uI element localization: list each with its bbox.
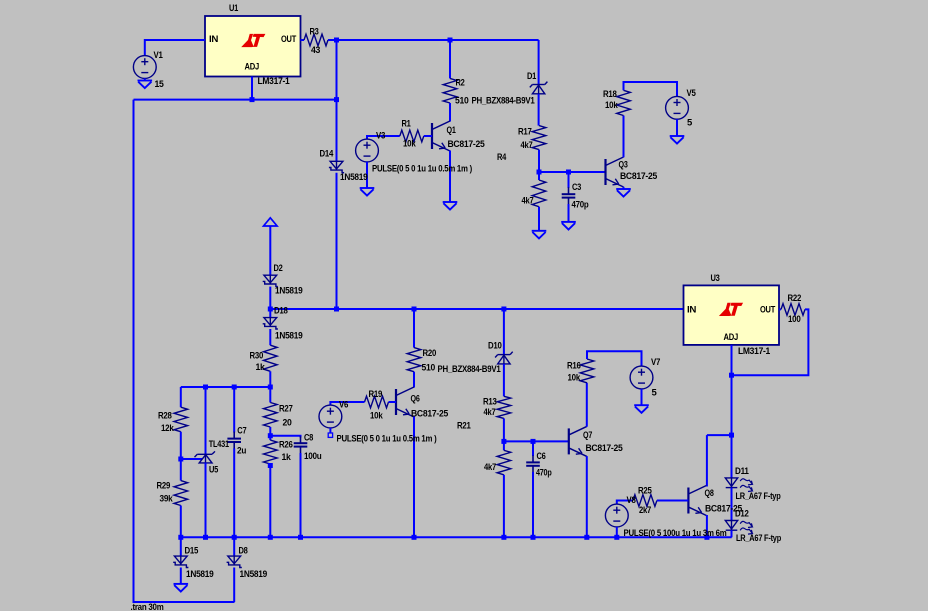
transistor Q7 BC817-25 <box>569 426 587 456</box>
svg-text:R21: R21 <box>457 421 471 432</box>
wire node to R4 <box>538 172 540 180</box>
node junction mid bus left end <box>268 307 273 312</box>
node bus/R21 <box>501 535 506 540</box>
wire Q6 emitter to bus <box>413 417 415 538</box>
wire arrow to D2 <box>269 226 271 275</box>
transistor Q3 BC817-25 <box>606 157 624 187</box>
svg-text:20: 20 <box>283 418 292 429</box>
wire D1 to R17 <box>538 94 540 126</box>
wire R29 to bottom bus <box>180 506 182 538</box>
wire D14 to mid bus <box>336 173 338 309</box>
wire node to Q3 base <box>539 171 606 173</box>
svg-text:R4: R4 <box>497 152 507 163</box>
svg-text:PH_BZX884-B9V1: PH_BZX884-B9V1 <box>438 364 502 375</box>
wire bus to D10 <box>503 309 505 354</box>
wire to R2 <box>449 40 451 78</box>
svg-text:10k: 10k <box>403 139 416 150</box>
svg-text:D12: D12 <box>735 509 749 520</box>
wire Q8 collector link <box>707 434 732 436</box>
svg-text:R17: R17 <box>518 127 532 138</box>
svg-text:C7: C7 <box>237 426 246 437</box>
wire U1 OUT to R3 <box>301 39 305 41</box>
wire R18 top to V5 <box>624 82 678 96</box>
svg-text:R29: R29 <box>157 481 171 492</box>
resistor R4 <box>532 180 546 207</box>
resistor R2 <box>443 78 457 103</box>
svg-text:R1: R1 <box>402 119 412 130</box>
wire D10 to R13 <box>503 364 505 396</box>
wire V3 to R1 <box>367 136 400 139</box>
wire R4 to ground <box>538 207 540 231</box>
node junction C3 top <box>566 170 571 175</box>
wire bus to D15 <box>180 537 182 556</box>
wire to C7 <box>233 387 235 433</box>
resistor R28 <box>174 407 188 432</box>
wire left rail to bottom <box>134 100 235 602</box>
diode D18 1N5819 <box>263 318 278 329</box>
wire D18 to R30 <box>269 329 271 345</box>
svg-text:D10: D10 <box>488 341 502 352</box>
ground C3 <box>561 222 576 230</box>
resistor R3 <box>304 34 328 46</box>
svg-text:LR_A67 F-typ: LR_A67 F-typ <box>736 533 781 544</box>
svg-text:OUT: OUT <box>760 305 775 316</box>
resistor R30 <box>264 345 278 371</box>
wire Q8 emitter to bus <box>706 515 708 537</box>
svg-text:R18: R18 <box>603 89 617 100</box>
svg-text:Q1: Q1 <box>447 125 457 136</box>
diode D8 1N5819 <box>227 556 242 567</box>
ground D15 <box>174 584 189 592</box>
capacitor C6 470p <box>526 455 540 472</box>
svg-text:ADJ: ADJ <box>724 332 739 343</box>
svg-text:PH_BZX884-B9V1: PH_BZX884-B9V1 <box>472 96 536 107</box>
svg-text:4k7: 4k7 <box>521 140 533 151</box>
wire R28 to R29 <box>180 432 182 481</box>
ground Q1 <box>443 202 458 210</box>
wire C7 to bus <box>233 449 235 538</box>
svg-text:V8: V8 <box>627 495 636 506</box>
LED D12 LR_A67 <box>725 521 752 535</box>
node bus/C7 <box>232 535 237 540</box>
svg-text:470p: 470p <box>572 200 589 211</box>
ground V7 <box>634 405 649 413</box>
voltage source V8 <box>605 504 628 527</box>
LT logo U3 <box>719 303 743 316</box>
wire R2 to Q1 collector <box>449 103 451 122</box>
svg-text:1N5819: 1N5819 <box>186 569 214 580</box>
svg-text:U5: U5 <box>209 465 219 476</box>
svg-text:V1: V1 <box>154 50 164 61</box>
wire V6 bottom stub <box>329 428 331 433</box>
svg-text:4k7: 4k7 <box>484 407 496 418</box>
svg-text:V6: V6 <box>339 400 348 411</box>
node junction R17/R4 <box>537 170 542 175</box>
svg-text:.tran 30m: .tran 30m <box>131 602 164 611</box>
node bus/R26 <box>268 535 273 540</box>
wire C6 to bus <box>532 472 534 537</box>
svg-text:39k: 39k <box>160 494 174 505</box>
svg-text:4k7: 4k7 <box>484 462 496 473</box>
wire R27 to R26 <box>269 427 271 440</box>
shunt regulator U5 TL431 <box>195 451 216 463</box>
svg-text:Q6: Q6 <box>411 394 420 405</box>
node junction R27/R26/C8 <box>268 433 273 438</box>
node junction R28/R29/ref <box>178 457 183 462</box>
svg-text:470p: 470p <box>536 468 552 479</box>
node bus/R29 <box>178 535 183 540</box>
svg-text:1k: 1k <box>256 362 266 373</box>
resistor R16 <box>580 359 594 383</box>
node junction D10 top <box>501 307 506 312</box>
resistor R27 <box>264 403 278 428</box>
svg-text:LM317-1: LM317-1 <box>258 76 291 87</box>
svg-text:U1: U1 <box>229 3 239 14</box>
svg-text:4k7: 4k7 <box>522 196 534 207</box>
svg-text:2u: 2u <box>237 446 247 457</box>
node junction C6 top <box>531 439 536 444</box>
wire ADJ row <box>134 99 337 101</box>
svg-text:D1: D1 <box>527 71 537 82</box>
wire V1 to U1 IN <box>145 40 205 56</box>
ground Q3 <box>616 189 631 197</box>
wire Q3 emitter to ground <box>623 187 625 189</box>
capacitor C3 470p <box>562 187 576 204</box>
wire V6 to R19 <box>330 402 364 405</box>
node junction R30/R27 <box>268 385 273 390</box>
svg-text:1N5819: 1N5819 <box>275 331 303 342</box>
resistor R18 <box>617 90 631 115</box>
node bus/C8 <box>298 535 303 540</box>
wire Q7 emitter to bus <box>586 456 588 537</box>
diode D15 1N5819 <box>173 556 188 567</box>
ground R4 <box>532 231 547 239</box>
svg-text:R25: R25 <box>638 486 652 497</box>
svg-text:BC817-25: BC817-25 <box>448 139 486 150</box>
wire R30 to node <box>269 371 271 387</box>
svg-text:D14: D14 <box>320 149 334 160</box>
zener diode D1 PH_BZX884-B9V1 <box>530 82 548 94</box>
voltage source V6 <box>319 405 342 428</box>
wire Q1 emitter to ground <box>449 151 451 203</box>
svg-text:510: 510 <box>455 96 469 107</box>
node junction R26 bottom <box>268 463 273 468</box>
wire R17 to node <box>538 150 540 172</box>
svg-text:12k: 12k <box>161 423 174 434</box>
svg-text:1N5819: 1N5819 <box>240 569 268 580</box>
wire node to C3 <box>568 172 570 188</box>
wire D8 to bottom rail <box>233 568 235 603</box>
node bus/C6 <box>531 535 536 540</box>
wire D2 to D18 <box>269 287 271 318</box>
diode D14 1N5819 <box>329 161 344 172</box>
wire R25 to Q8 base <box>657 500 689 502</box>
node junction ADJ/feedback <box>334 97 339 102</box>
svg-text:R22: R22 <box>788 293 802 304</box>
wire reference row <box>181 386 270 388</box>
svg-text:U3: U3 <box>711 273 720 284</box>
svg-text:C8: C8 <box>304 433 313 444</box>
svg-text:510: 510 <box>422 363 436 374</box>
wire TL431 anode to bus <box>205 463 207 538</box>
svg-text:10k: 10k <box>370 411 383 422</box>
svg-text:R26: R26 <box>279 440 293 451</box>
wire R19 to Q6 base <box>389 401 397 403</box>
wire R21 to bus <box>503 475 505 538</box>
wire R16 top to V7 <box>587 351 642 366</box>
svg-text:LM317-1: LM317-1 <box>738 346 771 357</box>
wire R22 to ADJ row <box>732 309 809 375</box>
wire node to C6 <box>532 441 534 456</box>
capacitor C7 2u <box>227 432 241 449</box>
resistor R1 <box>400 130 424 142</box>
wire D15 to ground <box>180 568 182 584</box>
ground V1 <box>138 81 153 89</box>
wire R20 to Q6 collector <box>413 372 415 388</box>
resistor R25 <box>633 495 657 507</box>
zener diode D10 PH_BZX884-B9V1 <box>495 352 513 364</box>
svg-text:15: 15 <box>155 79 165 90</box>
wire U3 OUT stub <box>779 308 781 310</box>
regulator U3 body <box>684 285 780 345</box>
wire Q3 collector to R18 <box>623 116 625 158</box>
svg-text:V5: V5 <box>687 88 697 99</box>
wire to TL431 cathode <box>205 387 207 454</box>
svg-text:IN: IN <box>209 34 219 45</box>
svg-text:R2: R2 <box>456 78 465 89</box>
wire mid bus <box>270 308 683 310</box>
node junction R13/R21/Q7 base <box>501 439 506 444</box>
wire V3 to ground <box>366 162 368 188</box>
svg-text:PULSE(0 5 100u 1u 1u 3m 6m: PULSE(0 5 100u 1u 1u 3m 6m <box>624 528 727 539</box>
wire bus to D8 <box>233 537 235 556</box>
wire bus to R20 <box>413 309 415 348</box>
svg-text:100: 100 <box>788 314 801 325</box>
svg-text:R19: R19 <box>369 389 383 400</box>
resistor R22 <box>781 304 805 316</box>
wire ref to TL431 <box>181 458 202 460</box>
resistor R26 <box>264 440 278 464</box>
svg-text:R3: R3 <box>310 27 319 38</box>
wire feedback to D14 <box>336 40 338 162</box>
svg-text:Q7: Q7 <box>583 430 592 441</box>
svg-text:D2: D2 <box>274 263 283 274</box>
node junction ADJ <box>250 97 255 102</box>
wire C3 to ground <box>568 204 570 222</box>
wire node to Q7 base <box>504 440 569 442</box>
wire R3 to D1 top rail <box>328 39 539 41</box>
svg-text:C3: C3 <box>572 182 581 193</box>
wire V5 to ground <box>676 119 678 136</box>
wire U1 ADJ pin <box>251 77 253 100</box>
svg-text:BC817-25: BC817-25 <box>586 443 624 454</box>
svg-text:D11: D11 <box>735 466 749 477</box>
wire bottom bus <box>181 536 732 538</box>
regulator U1 body <box>205 16 301 77</box>
svg-text:R30: R30 <box>250 351 264 362</box>
node junction TL431 top <box>203 385 208 390</box>
node bus/V8 <box>614 535 619 540</box>
wire Q8 collector vertical <box>706 435 708 486</box>
node junction U3 ADJ <box>729 373 734 378</box>
svg-text:1N5819: 1N5819 <box>275 286 303 297</box>
resistor R21 <box>497 450 511 475</box>
svg-text:V3: V3 <box>376 131 385 142</box>
capacitor C8 100u <box>294 436 308 453</box>
wire to R28 <box>180 387 182 407</box>
svg-text:2k7: 2k7 <box>639 505 651 516</box>
svg-text:R13: R13 <box>483 397 497 408</box>
svg-text:LR_A67 F-typ: LR_A67 F-typ <box>736 491 781 502</box>
svg-text:OUT: OUT <box>281 34 296 45</box>
ground V3 <box>360 188 375 196</box>
transistor Q6 BC817-25 <box>396 387 414 417</box>
svg-text:PULSE(0 5 0 1u 1u 0.5m 1m ): PULSE(0 5 0 1u 1u 0.5m 1m ) <box>372 164 472 175</box>
wire R26 to bus <box>269 464 271 537</box>
wire R13 to R21 <box>503 418 505 450</box>
svg-text:R16: R16 <box>567 361 581 372</box>
wire V8 to R25 <box>617 501 633 505</box>
wire to C8 <box>270 436 300 438</box>
node bus/Q6e <box>412 535 417 540</box>
voltage source V5 <box>666 96 689 119</box>
wire V1 to ground <box>144 78 146 80</box>
voltage source V1 <box>133 56 156 79</box>
wire to R27 <box>269 387 271 403</box>
ground V5 <box>670 136 685 144</box>
node junction R20 top <box>412 307 417 312</box>
node bus/Q8e <box>704 535 709 540</box>
resistor R17 <box>532 126 546 150</box>
resistor R19 <box>365 396 389 408</box>
LED D11 LR_A67 <box>725 478 752 492</box>
wire ADJ node to D11 <box>731 375 733 478</box>
LT logo U1 <box>241 34 265 47</box>
svg-text:R20: R20 <box>423 348 437 359</box>
voltage source V3 <box>356 139 379 162</box>
node junction C7 top <box>232 385 237 390</box>
svg-text:IN: IN <box>687 305 697 316</box>
svg-text:10k: 10k <box>605 100 618 111</box>
wire D11 to D12 <box>731 488 733 521</box>
node bus/U5 <box>203 535 208 540</box>
node junction D14 chain/bus <box>334 307 339 312</box>
svg-text:1k: 1k <box>282 452 292 463</box>
svg-text:C6: C6 <box>537 451 546 462</box>
wire V7 to ground <box>641 389 643 405</box>
wire D12 to bus <box>731 530 733 537</box>
svg-text:R27: R27 <box>279 404 293 415</box>
wire R1 to Q1 base <box>424 135 432 137</box>
svg-text:BC817-25: BC817-25 <box>411 409 449 420</box>
node junction R3/feedback <box>334 38 339 43</box>
svg-text:D15: D15 <box>185 546 199 557</box>
svg-text:10k: 10k <box>568 373 581 384</box>
svg-text:ADJ: ADJ <box>245 62 260 73</box>
svg-text:TL431: TL431 <box>209 439 230 450</box>
resistor R13 <box>497 396 511 418</box>
power flag up arrow <box>264 218 278 226</box>
svg-text:43: 43 <box>311 45 320 56</box>
voltage source V7 <box>630 366 653 389</box>
wire C8 to bus <box>300 453 302 537</box>
transistor Q8 BC817-25 <box>688 486 706 516</box>
resistor R20 <box>407 348 421 372</box>
wire Q7 collector to R16 <box>586 383 588 427</box>
svg-text:D18: D18 <box>274 306 288 317</box>
svg-text:R28: R28 <box>158 411 172 422</box>
node bus/Q7e <box>584 535 589 540</box>
wire V8 to bus <box>616 527 618 537</box>
node V6 open terminal <box>328 433 332 437</box>
node junction Q8 collector <box>729 433 734 438</box>
wire U3 ADJ pin <box>731 345 733 375</box>
svg-text:Q3: Q3 <box>619 160 628 171</box>
svg-text:V7: V7 <box>651 357 660 368</box>
svg-text:PULSE(0 5 0 1u 1u 0.5m 1m ): PULSE(0 5 0 1u 1u 0.5m 1m ) <box>337 434 437 445</box>
resistor R29 <box>174 481 188 506</box>
wire top rail to D1 <box>538 40 540 84</box>
svg-text:1N5819: 1N5819 <box>340 172 368 183</box>
svg-text:BC817-25: BC817-25 <box>620 171 658 182</box>
node junction R2 top <box>448 38 453 43</box>
component text labels <box>131 3 802 611</box>
svg-text:100u: 100u <box>304 451 322 462</box>
transistor Q1 BC817-25 <box>432 121 450 151</box>
svg-text:Q8: Q8 <box>705 488 714 499</box>
diode D2 1N5819 <box>263 275 278 286</box>
svg-text:D8: D8 <box>239 546 248 557</box>
